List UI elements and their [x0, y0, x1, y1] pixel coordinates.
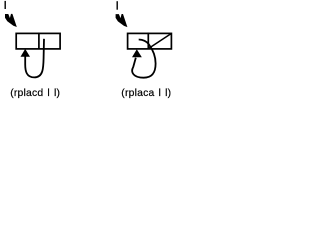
divider of box 2	[147, 33, 149, 49]
wire: car self-loop of box 2	[132, 40, 155, 78]
node L stub (right variable pointer tail)	[116, 1, 118, 10]
arrowhead into left cons cell	[5, 14, 17, 27]
divider of box 1	[38, 33, 40, 49]
svg-text:(rplacd l l): (rplacd l l)	[10, 88, 60, 99]
background	[0, 0, 173, 102]
cons cell box 1	[16, 33, 60, 49]
svg-text:(rplaca l l): (rplaca l l)	[121, 88, 171, 99]
node L stub (left variable pointer tail)	[4, 1, 6, 9]
arrowhead into right cons cell	[116, 14, 128, 27]
nil slash in cdr cell of box 2	[149, 34, 171, 49]
arrowhead of car loop into box 2 bottom	[132, 49, 142, 57]
wire: cdr self-loop of box 1	[25, 39, 44, 78]
cons cell box 2	[128, 33, 172, 49]
arrowhead of cdr loop into box 1 bottom	[21, 49, 31, 57]
